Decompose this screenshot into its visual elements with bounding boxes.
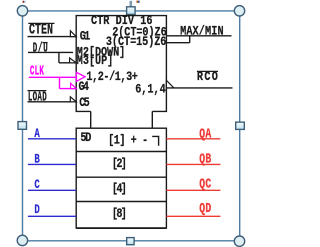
- net label LOAD: [28, 90, 47, 105]
- counter U1 lower block outline: [76, 128, 166, 228]
- polarity triangle D/U/M3: [70, 58, 77, 63]
- wire B: [28, 163, 76, 165]
- net label D/U: [33, 41, 48, 56]
- selection handle circle top-right: [234, 6, 244, 16]
- selection handle circle bottom-right: [234, 236, 244, 246]
- svg-text:[2]: [2]: [112, 156, 127, 172]
- svg-text:MAX/MIN: MAX/MIN: [180, 23, 224, 39]
- wire QB: [166, 163, 220, 165]
- net label RCO: [197, 69, 218, 85]
- svg-text:5D: 5D: [80, 130, 91, 146]
- polarity triangle RCO: [166, 80, 174, 88]
- wire CLK branch lower: [60, 88, 77, 90]
- wire C: [28, 189, 76, 191]
- svg-text:G1: G1: [80, 28, 91, 44]
- svg-text:[4]: [4]: [112, 181, 127, 197]
- polarity triangle LOAD/C5: [70, 97, 76, 102]
- artifact dot right: [136, 1, 139, 3]
- wire LOAD: [28, 101, 77, 103]
- svg-text:G4: G4: [79, 79, 90, 95]
- svg-text:1,2-/1,3+: 1,2-/1,3+: [86, 69, 137, 85]
- clock triangle CLK: [76, 72, 85, 81]
- svg-text:QC: QC: [199, 176, 211, 192]
- selection handle square left: [18, 122, 27, 130]
- selection frame: [23, 11, 240, 241]
- wire MAX/MIN: [166, 35, 231, 37]
- selection handle square right: [236, 122, 245, 129]
- svg-text:D/U: D/U: [33, 41, 48, 56]
- wire RCO: [166, 87, 232, 89]
- selection handle square bottom: [127, 238, 134, 245]
- counter U1 upper block outline: [76, 16, 166, 129]
- svg-text:CTEN: CTEN: [29, 22, 53, 38]
- wire D/U lower: [59, 62, 76, 64]
- selection handle square top: [127, 7, 136, 15]
- carry hook symbol: [152, 136, 158, 145]
- wire CTEN: [28, 36, 77, 38]
- wire A: [28, 138, 76, 140]
- svg-text:[1] + -: [1] + -: [108, 132, 148, 148]
- wire MAX/MIN step horizontal: [166, 42, 189, 44]
- artifact dot left: [23, 1, 26, 3]
- svg-text:QD: QD: [199, 201, 211, 217]
- wire D/U horizontal: [28, 51, 73, 53]
- polarity triangle CLK/G4: [71, 83, 77, 88]
- svg-text:M3[UP]: M3[UP]: [77, 55, 114, 68]
- net label CTEN: [28, 22, 54, 38]
- wire CLK branch vertical: [59, 77, 61, 88]
- wire CLK: [29, 76, 77, 78]
- wire QA: [166, 138, 220, 140]
- selection handle circle bottom-left: [17, 235, 27, 245]
- svg-text:[8]: [8]: [112, 206, 127, 222]
- svg-text:6,1,4: 6,1,4: [135, 81, 166, 97]
- polarity triangle CTEN/G1: [70, 31, 76, 37]
- svg-text:QA: QA: [199, 126, 212, 142]
- svg-text:C5: C5: [79, 95, 90, 111]
- wire QD: [166, 215, 220, 217]
- wire D: [28, 215, 76, 217]
- svg-text:LOAD: LOAD: [28, 90, 47, 105]
- selection handle stem top: [130, 1, 133, 7]
- svg-text:D: D: [34, 204, 40, 218]
- wire MAX/MIN step vertical: [189, 36, 191, 43]
- selection handle circle top-left: [17, 6, 27, 16]
- wire D/U vertical: [58, 52, 60, 62]
- wire QC: [166, 189, 220, 191]
